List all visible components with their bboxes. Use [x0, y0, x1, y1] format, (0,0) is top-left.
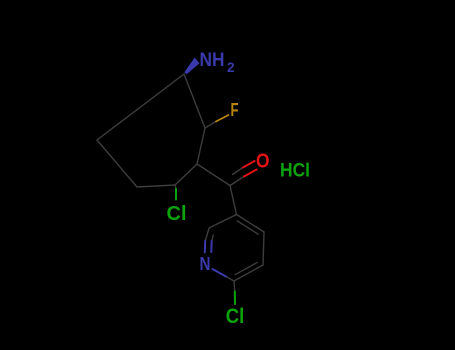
svg-text:Cl: Cl: [226, 304, 245, 328]
wire bond carbonyl C to pyridine C3: [230, 186, 237, 215]
wire pyridine bond N-C6 blue half: [213, 269, 227, 277]
wire pyridine bond C6-N dark half: [226, 277, 234, 282]
wire ring1 bond P1-P2 (C-C): [97, 74, 184, 140]
svg-text:F: F: [231, 100, 239, 120]
wire pyridine bond N=C2 main dark half: [205, 229, 209, 242]
wire ring1 bond P3-P4 (C-C): [137, 185, 175, 187]
svg-text:NH: NH: [200, 50, 225, 71]
svg-text:N: N: [200, 254, 211, 274]
wire bond Cl1 green half: [175, 189, 177, 200]
wire ring1 bond P4-P5 (C-C): [175, 164, 197, 185]
node NH2 amine label: [200, 50, 235, 75]
svg-text:O: O: [256, 151, 270, 173]
wire bond Cl2 green half: [234, 292, 236, 305]
wire C=O inner line red half: [243, 161, 255, 168]
wire pyridine bond C3-C4: [237, 215, 265, 233]
wire pyridine bond N=C2 inner dark half: [212, 235, 214, 241]
wire pyridine bond N=C2 inner blue half: [210, 241, 212, 252]
wire bond C6 dark stub to Cl2: [233, 281, 236, 292]
wire pyridine double bond inner line C5=C6: [235, 263, 257, 275]
wire pyridine bond C4-C5: [263, 232, 264, 265]
wire bond F gold half: [216, 115, 229, 122]
wire bond C(Cl) dark stub to Cl: [175, 185, 176, 189]
svg-text:2: 2: [227, 59, 235, 75]
wire bond C(F) dark half to F: [205, 122, 216, 129]
svg-text:HCl: HCl: [280, 161, 310, 182]
wire pyridine bond C2-C3: [209, 215, 237, 229]
wire bond P5 to carbonyl C: [197, 164, 230, 186]
wire ring1 bond P5-P6 (C-C): [197, 128, 205, 164]
wire pyridine bond C5-C6: [234, 265, 263, 281]
wire C=O main line dark half: [230, 177, 244, 186]
wire pyridine double bond inner line C3=C4: [237, 221, 258, 234]
wire ring1 bond P6-P1 (C-C): [184, 74, 205, 128]
wedge stereo bond to NH2 (blue): [184, 58, 199, 75]
wire C=O inner line dark half: [233, 168, 244, 175]
svg-text:Cl: Cl: [167, 202, 187, 225]
wire pyridine bond N=C2 main blue half: [204, 241, 206, 253]
wire C=O main line red half: [244, 170, 257, 177]
wire ring1 bond P2-P3 (C-C): [97, 140, 137, 187]
